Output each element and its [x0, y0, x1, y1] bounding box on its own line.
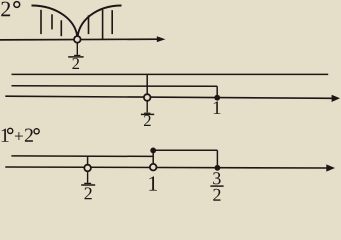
leader line below circle (figure 1) [76, 43, 78, 55]
digit 2 of label 2-degree [1, 2, 10, 17]
fraction bar 1/2 (figure 1) [68, 56, 83, 58]
label 1 (figure 2) [214, 101, 221, 114]
fraction bar 3/2 (figure 3) [210, 185, 223, 187]
hatch lines under right arc [89, 10, 113, 40]
digit 1 of label 1-degree plus 2-degree [2, 129, 9, 142]
bracket top segment (figure 3) [153, 149, 217, 151]
arrowhead of figure 2 [332, 95, 340, 102]
leader line below circle (figure 3) [87, 172, 89, 183]
auxiliary line (figure 3) [11, 155, 153, 158]
hatch lines under left arc [41, 10, 61, 36]
vertical connector at 1/2 (figure 3) [87, 156, 89, 164]
arrowhead of figure 3 [326, 164, 335, 171]
right arc over number line [78, 6, 122, 39]
upper auxiliary line (figure 2) [12, 73, 329, 75]
digit 2 of label 1-degree plus 2-degree [25, 129, 33, 142]
bracket right drop (figure 3) [216, 150, 218, 167]
filled dot above 1 (figure 3) [150, 148, 156, 154]
vertical connector at 1/2 (figure 2) [146, 74, 148, 94]
serif foot of leader (figure 1) [74, 54, 80, 56]
vertical connector at 1 (figure 2) [216, 86, 218, 97]
degree circle of label 2-degree [14, 2, 20, 8]
lower auxiliary line (figure 2) [12, 85, 218, 88]
serif foot of leader (figure 2) [144, 112, 150, 114]
numerator 3 of 3/2 (figure 3) [213, 172, 220, 184]
number line of figure 1 [0, 38, 158, 41]
serif foot of leader (figure 3) [84, 182, 91, 184]
open circle at 1/2 (figure 1) [74, 36, 81, 43]
filled dot at 1 (figure 2) [214, 95, 220, 101]
fraction bar 1/2 (figure 2) [141, 113, 154, 115]
open circle at 1/2 (figure 2) [144, 94, 151, 101]
leader line below circle (figure 2) [146, 102, 148, 113]
degree circle after digit 2 [34, 129, 39, 134]
denominator 2 (figure 1) [72, 58, 79, 69]
open circle at 1/2 (figure 3) [84, 165, 91, 172]
number line of figure 2 [5, 96, 332, 98]
open circle at 1 (figure 3) [150, 164, 157, 171]
left arc over number line [32, 6, 78, 39]
denominator 2 of 1/2 (figure 3) [84, 187, 91, 199]
plus sign of label [15, 132, 23, 140]
degree circle after digit 1 [8, 128, 13, 133]
denominator 2 of 3/2 (figure 3) [213, 189, 220, 201]
denominator 2 (figure 2) [144, 115, 151, 126]
arrowhead of figure 1 [157, 36, 166, 42]
label 1 (figure 3) [149, 176, 157, 190]
number line of figure 3 [5, 167, 327, 168]
vertical connector at 1 (figure 3) [152, 150, 154, 163]
filled dot at 3/2 (figure 3) [215, 165, 221, 171]
fraction bar 1/2 (figure 3) [81, 184, 95, 186]
